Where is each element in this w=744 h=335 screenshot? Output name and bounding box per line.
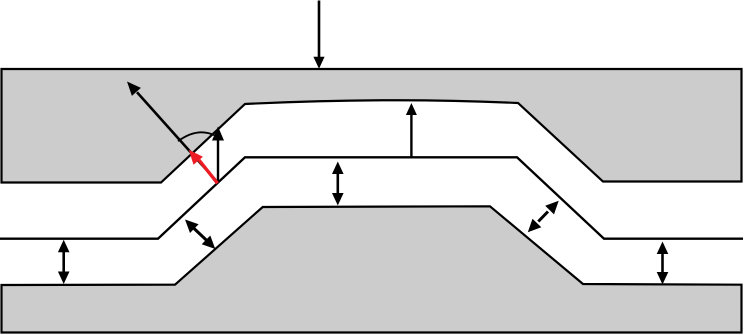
left slope thickness double arrow [185, 220, 215, 250]
middle thickness double arrow [332, 162, 344, 206]
lower die block (punch) [2, 206, 742, 332]
red friction arrow [189, 150, 218, 184]
force arrow (top, pointing down) [313, 1, 324, 69]
upper die block [2, 69, 742, 183]
inclined normal arrow (black, up-left) [127, 82, 218, 183]
clearance arrow (pointing up to upper die) [406, 103, 417, 158]
sheet upper surface line [0, 157, 743, 238]
angle arc [178, 132, 215, 141]
left thickness double arrow [58, 240, 70, 284]
right thickness double arrow [657, 242, 669, 285]
right slope thickness double arrow [528, 201, 559, 233]
vertical angle reference arrow [212, 127, 224, 183]
